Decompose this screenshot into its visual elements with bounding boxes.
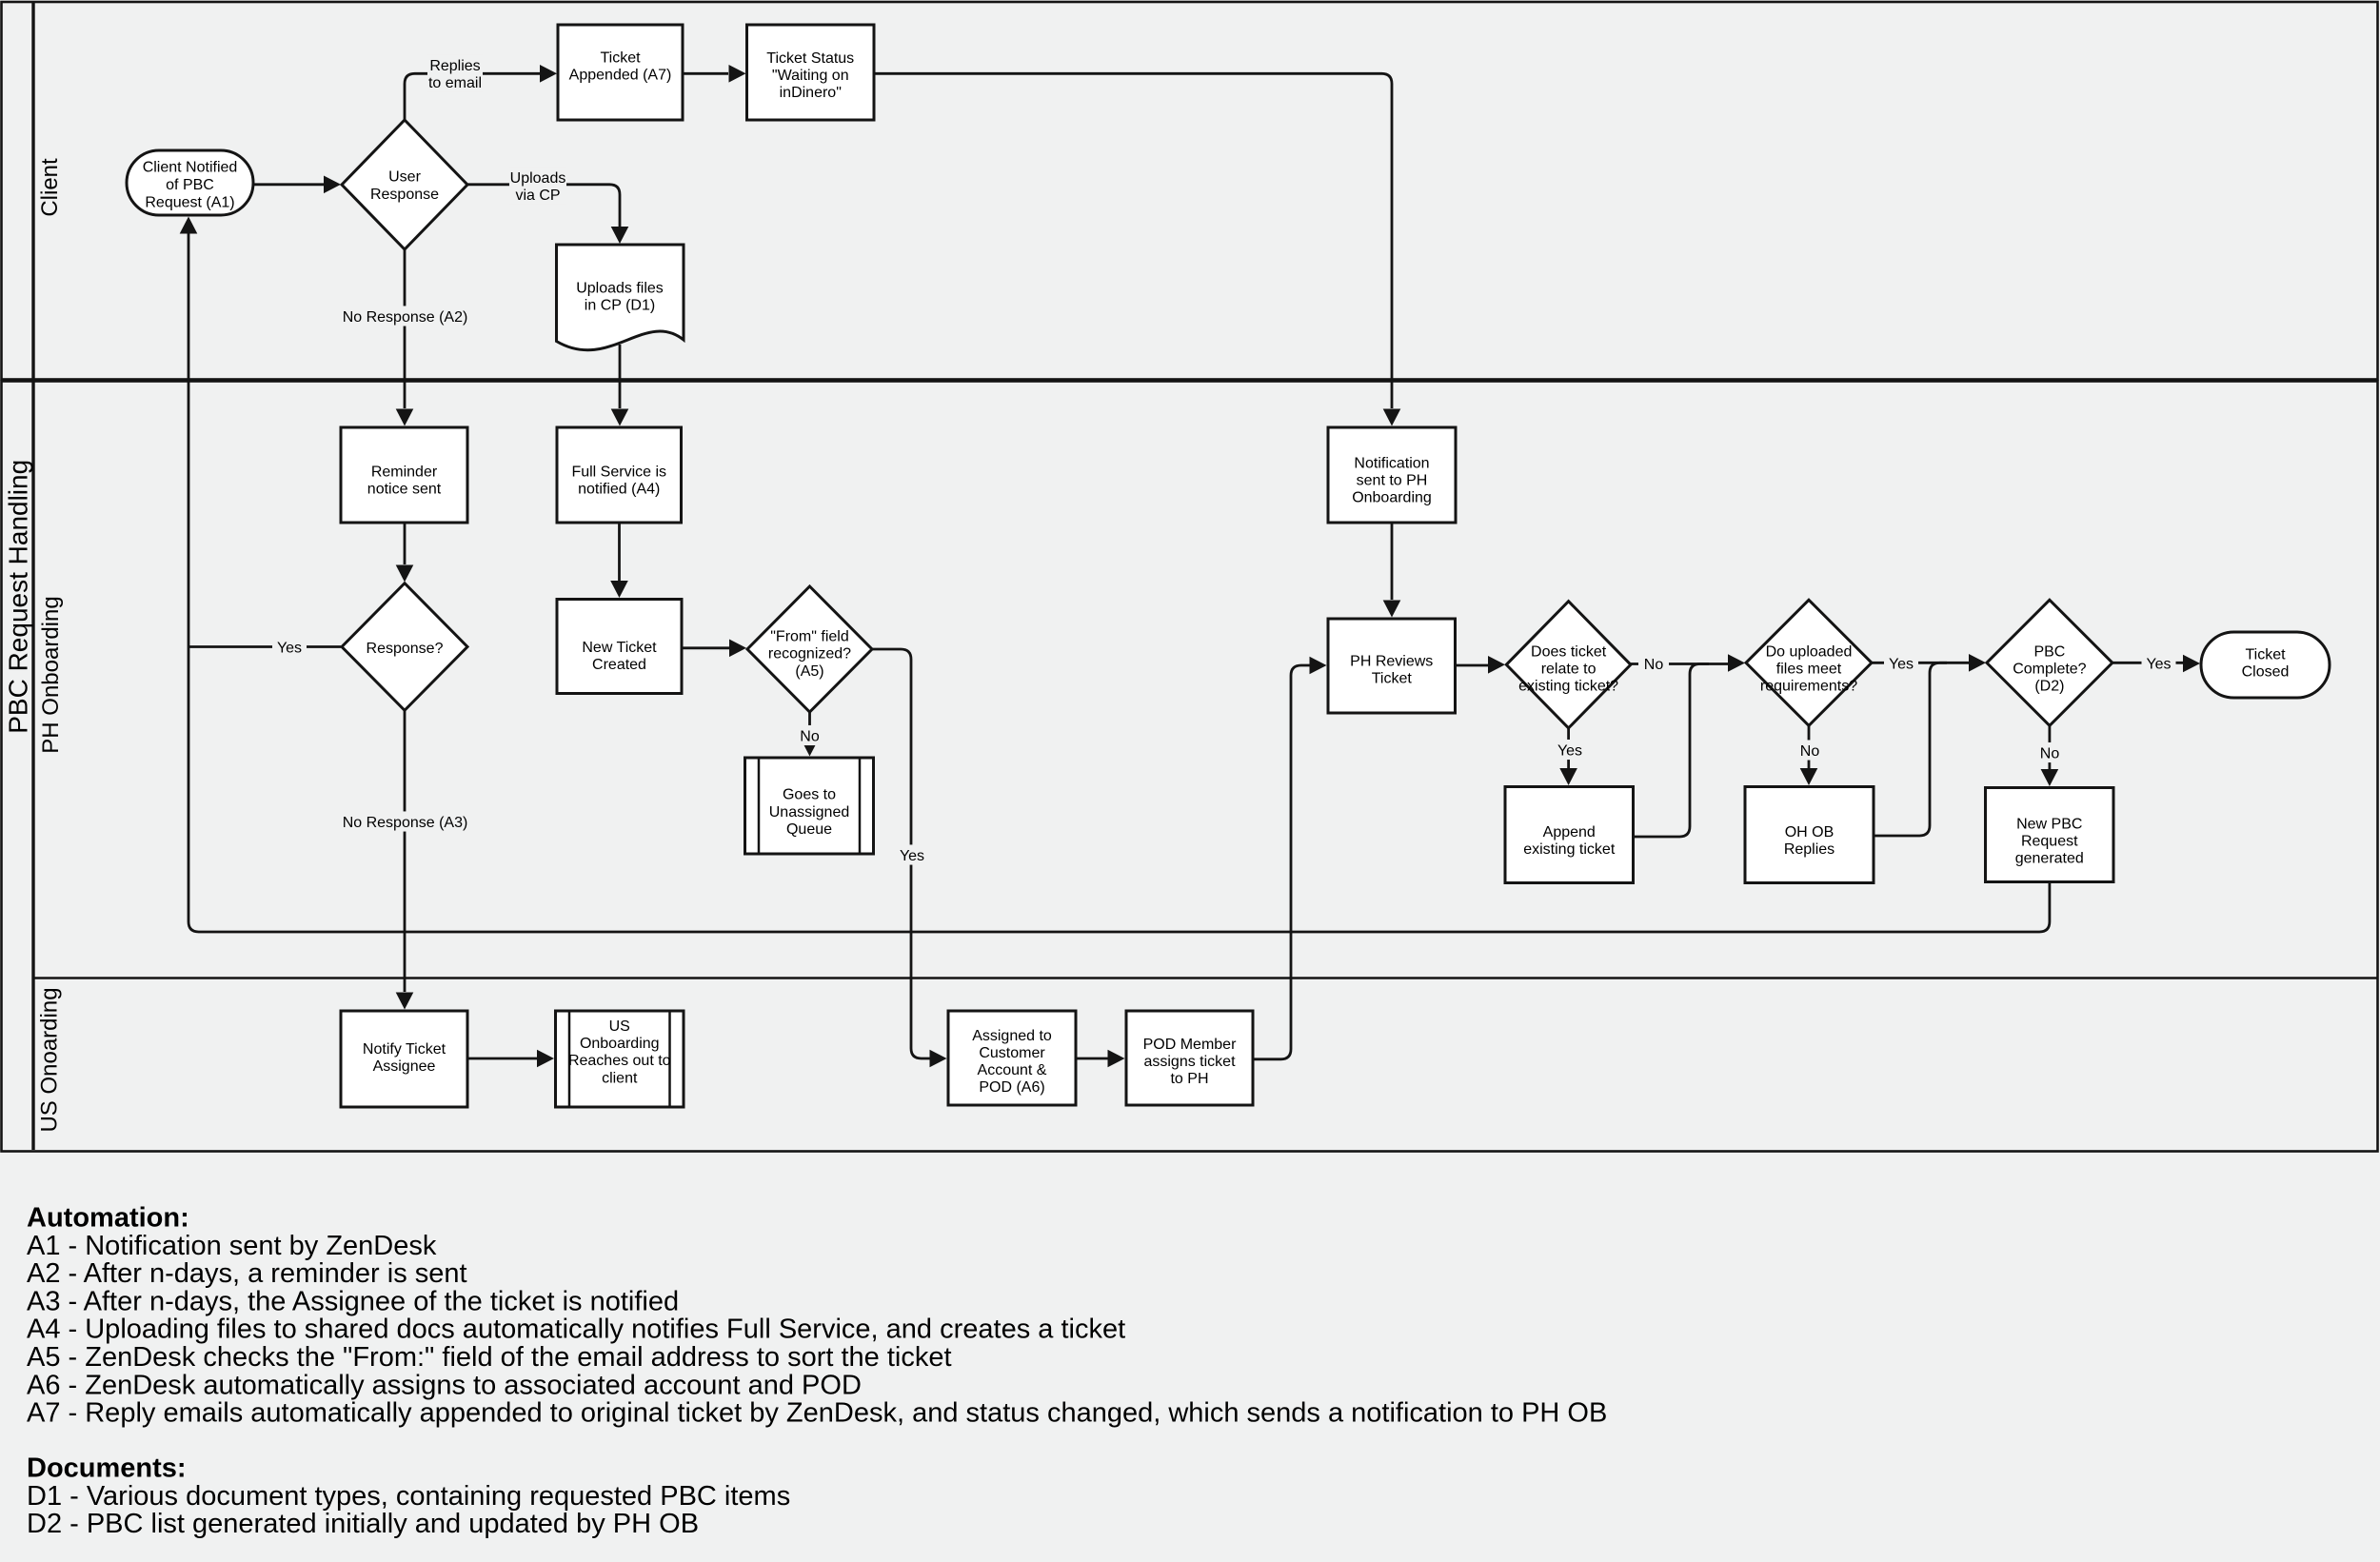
wire New Ticket Created to From field diamond: [682, 646, 729, 649]
svg-text:Uploads: Uploads: [510, 170, 566, 187]
svg-text:A5 - ZenDesk checks the "From:: A5 - ZenDesk checks the "From:" field of…: [27, 1342, 952, 1373]
wire Notification to PH Reviews Ticket: [1391, 524, 1394, 601]
svg-text:via CP: via CP: [515, 188, 560, 204]
wire Assigned to Customer to POD Member: [1076, 1058, 1108, 1060]
edge label No (Does ticket relate): [1638, 653, 1669, 673]
wire POD Member to PH Reviews Ticket: [1253, 665, 1310, 1059]
svg-text:"Waiting on: "Waiting on: [772, 68, 849, 84]
svg-text:Appended (A7): Appended (A7): [569, 68, 672, 84]
svg-text:to email: to email: [428, 75, 482, 91]
svg-text:Do uploaded: Do uploaded: [1766, 643, 1853, 660]
wire Does ticket relate No to Do uploaded files: [1631, 662, 1728, 665]
edge label No (PBC Complete): [2035, 742, 2064, 762]
svg-text:Complete?: Complete?: [2013, 661, 2086, 677]
wire From field No to Goes to Unassigned Queue: [808, 712, 811, 740]
svg-text:Ticket: Ticket: [1372, 671, 1413, 687]
decision Do uploaded files meet requirements: [1746, 600, 1872, 725]
process Assigned to Customer Account and POD (A6): [948, 1011, 1076, 1105]
svg-text:US: US: [609, 1018, 630, 1035]
terminator Client Notified of PBC Request (A1): [127, 150, 253, 215]
process POD Member assigns ticket to PH: [1126, 1011, 1253, 1105]
svg-text:of PBC: of PBC: [166, 177, 214, 193]
wire Full Service to New Ticket Created: [618, 524, 621, 582]
svg-text:Response: Response: [370, 187, 439, 203]
svg-text:Goes to: Goes to: [783, 787, 836, 803]
svg-text:Yes: Yes: [277, 640, 302, 656]
svg-text:Unassigned: Unassigned: [769, 804, 850, 821]
svg-text:A1 - Notification sent by ZenD: A1 - Notification sent by ZenDesk: [27, 1231, 437, 1261]
subprocess US Onboarding Reaches out to client: [556, 1011, 684, 1107]
arrowhead into Full Service: [611, 409, 629, 426]
svg-text:requirements?: requirements?: [1760, 679, 1857, 695]
svg-text:Assignee: Assignee: [373, 1058, 436, 1075]
arrowhead into Ticket Status: [729, 65, 746, 83]
pool Client: [2, 2, 2378, 380]
svg-text:Queue: Queue: [786, 821, 832, 838]
process Reminder notice sent: [341, 427, 467, 523]
svg-text:recognized?: recognized?: [768, 646, 851, 662]
svg-text:Reaches out to: Reaches out to: [568, 1053, 671, 1069]
svg-text:OH OB: OH OB: [1785, 824, 1835, 840]
svg-text:(A5): (A5): [795, 663, 823, 680]
svg-text:Yes: Yes: [1557, 742, 1582, 759]
svg-text:New PBC: New PBC: [2016, 816, 2082, 832]
wire Do uploaded Yes to PBC Complete: [1873, 662, 1970, 664]
wire Uploads files doc to Full Service: [619, 345, 622, 408]
svg-text:Request: Request: [2021, 834, 2078, 850]
process Ticket Appended (A7): [558, 25, 683, 120]
wire Response? Yes to feedback trunk: [188, 645, 341, 648]
svg-text:sent to PH: sent to PH: [1357, 473, 1428, 489]
svg-text:PBC Request Handling: PBC Request Handling: [4, 460, 33, 734]
process Append existing ticket: [1505, 787, 1634, 883]
arrowhead into POD Member: [1108, 1050, 1125, 1068]
arrowhead into Client Notified stadium: [180, 217, 198, 234]
svg-text:Ticket Status: Ticket Status: [766, 50, 854, 67]
svg-text:D2 - PBC list generated initia: D2 - PBC list generated initially and up…: [27, 1509, 699, 1539]
svg-text:No: No: [1800, 743, 1820, 760]
wire User Response to Uploads files (Uploads via CP): [467, 185, 620, 227]
arrowhead into Notify Ticket Assignee: [396, 993, 414, 1010]
svg-text:Append: Append: [1543, 824, 1596, 840]
svg-text:inDinero": inDinero": [780, 85, 842, 101]
svg-text:US Onoarding: US Onoarding: [37, 987, 63, 1132]
svg-text:POD Member: POD Member: [1143, 1037, 1237, 1053]
svg-text:Ticket: Ticket: [2245, 647, 2286, 663]
arrowhead into Do uploaded files: [1728, 654, 1745, 672]
arrowhead into Notification box: [1383, 409, 1401, 426]
wire Do uploaded No to OH OB Replies: [1808, 725, 1811, 769]
svg-text:PH Onboarding: PH Onboarding: [38, 596, 64, 753]
process New Ticket Created: [557, 600, 682, 694]
svg-text:client: client: [602, 1070, 638, 1086]
arrowhead into PH Reviews Ticket: [1310, 657, 1327, 675]
svg-text:notice sent: notice sent: [367, 482, 442, 498]
svg-text:Onboarding: Onboarding: [580, 1036, 660, 1052]
subprocess Goes to Unassigned Queue: [745, 758, 874, 854]
svg-text:No Response (A3): No Response (A3): [343, 815, 468, 831]
svg-text:to PH: to PH: [1170, 1071, 1208, 1087]
edge label No Response (A3): [339, 811, 472, 831]
svg-text:Does ticket: Does ticket: [1531, 643, 1607, 660]
wire PH Reviews to Does ticket relate: [1456, 664, 1488, 667]
process Ticket Status Waiting on inDinero: [747, 25, 875, 120]
wire User Response to Reminder (No Response A2): [404, 249, 407, 408]
wire New PBC Request feedback to Client Notified: [188, 233, 2050, 932]
svg-text:files meet: files meet: [1776, 661, 1842, 677]
svg-text:No: No: [2040, 745, 2060, 761]
wire Ticket Appended to Ticket Status: [684, 72, 729, 75]
svg-text:POD (A6): POD (A6): [979, 1079, 1044, 1096]
svg-text:A4 - Uploading files to shared: A4 - Uploading files to shared docs auto…: [27, 1315, 1125, 1345]
decision User Response: [342, 120, 467, 249]
process OH OB Replies: [1745, 787, 1874, 883]
svg-text:A7 - Reply emails automaticall: A7 - Reply emails automatically appended…: [27, 1398, 1607, 1429]
arrowhead into New PBC Request: [2041, 769, 2059, 786]
svg-text:No: No: [1644, 657, 1664, 673]
svg-text:generated: generated: [2015, 851, 2084, 867]
wire User Response to Ticket Appended (Replies to email): [405, 73, 540, 120]
wire Response? No Response A3 to Notify Ticket Assignee: [404, 710, 407, 992]
wire Reminder to Response?: [404, 524, 407, 565]
svg-text:Client Notified: Client Notified: [143, 160, 238, 176]
svg-text:Reminder: Reminder: [371, 464, 438, 480]
svg-text:Account &: Account &: [978, 1062, 1047, 1078]
svg-text:(D2): (D2): [2034, 679, 2064, 695]
process Notification sent to PH Onboarding: [1328, 427, 1456, 523]
arrowhead into Does ticket relate: [1488, 656, 1505, 674]
lane PH Onboarding divider: [33, 977, 2378, 979]
edge label Yes (Does ticket relate): [1553, 740, 1587, 760]
svg-text:Notification: Notification: [1354, 455, 1429, 471]
svg-text:Assigned to: Assigned to: [972, 1028, 1052, 1044]
svg-text:Replies: Replies: [429, 58, 480, 74]
arrowhead into New Ticket Created: [610, 581, 628, 598]
decision Response?: [342, 583, 467, 711]
wire Client Notified to User Response: [253, 183, 324, 186]
svg-text:Response?: Response?: [367, 641, 444, 657]
edge label No (From field): [796, 725, 824, 745]
wire Ticket Status to Notification sent to PH Onboarding: [875, 73, 1393, 408]
svg-text:No Response (A2): No Response (A2): [343, 309, 468, 326]
svg-text:Ticket: Ticket: [600, 50, 641, 67]
arrowhead into Reminder notice sent: [396, 409, 414, 426]
svg-text:Yes: Yes: [2146, 656, 2171, 672]
document Uploads files in CP (D1): [557, 245, 684, 350]
svg-text:"From" field: "From" field: [770, 629, 848, 645]
wire From field Yes to Assigned to Customer: [872, 649, 930, 1058]
svg-text:PBC: PBC: [2033, 643, 2065, 660]
arrowhead into Ticket Closed: [2183, 655, 2200, 673]
svg-text:D1 - Various document types, c: D1 - Various document types, containing …: [27, 1481, 790, 1512]
svg-text:Client: Client: [37, 158, 63, 217]
svg-text:Closed: Closed: [2242, 664, 2290, 681]
svg-text:assigns ticket: assigns ticket: [1143, 1054, 1236, 1070]
arrowhead into Ticket Appended: [540, 65, 557, 83]
svg-text:notified (A4): notified (A4): [578, 482, 660, 498]
process Full Service is notified (A4): [557, 427, 682, 523]
arrowhead into Response? diamond: [396, 565, 414, 583]
edge label No Response (A2): [339, 306, 472, 326]
arrowhead into User Response: [324, 176, 341, 194]
svg-text:Onboarding: Onboarding: [1352, 490, 1432, 506]
arrowhead into Uploads files doc: [611, 227, 629, 244]
svg-text:Automation:: Automation:: [27, 1203, 189, 1234]
arrowhead into Assigned to Customer: [930, 1050, 947, 1068]
svg-text:Replies: Replies: [1784, 841, 1835, 858]
svg-text:Request (A1): Request (A1): [145, 195, 234, 211]
process New PBC Request generated: [1986, 788, 2114, 882]
arrowhead into PH Reviews top: [1383, 601, 1401, 618]
svg-text:Uploads files: Uploads files: [576, 280, 664, 296]
svg-text:New Ticket: New Ticket: [582, 640, 657, 656]
svg-text:Yes: Yes: [900, 848, 924, 864]
edge label Yes (PBC Complete): [2142, 653, 2176, 673]
arrowhead into From field diamond: [729, 640, 746, 658]
edge label Uploads via CP: [509, 167, 566, 204]
svg-text:No: No: [800, 728, 820, 744]
arrowhead into Append existing ticket: [1559, 768, 1577, 785]
svg-text:A6 - ZenDesk automatically ass: A6 - ZenDesk automatically assigns to as…: [27, 1370, 862, 1400]
decision From field recognized (A5): [747, 586, 872, 712]
edge label Yes (From field): [895, 844, 929, 864]
decision Does ticket relate to existing ticket: [1506, 602, 1631, 728]
edge label Yes (Do uploaded files): [1884, 653, 1918, 673]
arrowhead into Goes to Unassigned Queue: [801, 740, 819, 757]
svg-text:Created: Created: [592, 657, 646, 673]
wire Notify Ticket Assignee to US Onboarding Reaches: [467, 1058, 537, 1060]
decision PBC Complete (D2): [1987, 600, 2112, 725]
wire PBC Complete Yes to Ticket Closed: [2112, 662, 2183, 664]
svg-text:existing ticket?: existing ticket?: [1518, 679, 1618, 695]
svg-text:in CP (D1): in CP (D1): [585, 297, 655, 313]
wire Append existing ticket up to junction: [1634, 664, 1709, 838]
svg-text:A2 - After n-days, a reminder: A2 - After n-days, a reminder is sent: [27, 1258, 467, 1289]
edge label Yes (Response to Client Notified): [272, 637, 307, 657]
svg-text:Notify Ticket: Notify Ticket: [363, 1041, 446, 1058]
svg-text:relate to: relate to: [1541, 661, 1597, 677]
svg-text:User: User: [388, 168, 421, 185]
svg-text:PH Reviews: PH Reviews: [1350, 653, 1433, 669]
wire Does ticket relate Yes to Append existing: [1567, 728, 1570, 769]
terminator Ticket Closed: [2201, 632, 2330, 698]
process Notify Ticket Assignee: [341, 1011, 467, 1107]
arrowhead into US Onboarding Reaches: [537, 1050, 554, 1068]
pool PBC Request Handling: [2, 382, 2378, 1152]
svg-text:Documents:: Documents:: [27, 1453, 187, 1484]
svg-text:existing ticket: existing ticket: [1523, 841, 1616, 858]
process PH Reviews Ticket: [1328, 619, 1456, 713]
wire OH OB Replies up to junction: [1874, 662, 1948, 836]
svg-text:Yes: Yes: [1889, 656, 1914, 672]
svg-text:A3 - After n-days, the Assigne: A3 - After n-days, the Assignee of the t…: [27, 1286, 679, 1316]
wire PBC Complete No to New PBC Request: [2048, 725, 2051, 770]
edge label Replies to email: [427, 54, 483, 91]
arrowhead into PBC Complete: [1969, 654, 1986, 672]
arrowhead into OH OB Replies: [1800, 768, 1818, 785]
edge label No (Do uploaded files): [1795, 740, 1824, 760]
svg-text:Customer: Customer: [979, 1045, 1045, 1061]
svg-text:Full Service is: Full Service is: [571, 464, 666, 480]
